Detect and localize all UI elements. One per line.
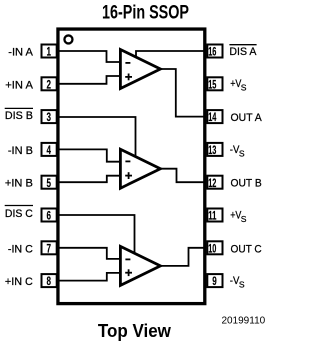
pin 4 label -IN B	[8, 145, 33, 157]
wire pin1 to op-amp A inverting input	[59, 51, 120, 62]
pin 8 number	[46, 274, 51, 288]
pin 3 number	[46, 110, 51, 124]
svg-text:14: 14	[208, 110, 216, 124]
svg-text:OUT B: OUT B	[231, 178, 262, 190]
title 16-Pin SSOP	[102, 2, 189, 23]
svg-text:S: S	[241, 214, 247, 224]
caption Top View	[98, 320, 172, 341]
svg-text:1: 1	[46, 45, 51, 59]
pin 12 box	[207, 176, 222, 189]
pin 12 number	[208, 176, 216, 190]
pin 16 box	[207, 45, 222, 58]
wire pin16 DIS A to op-amp A top edge	[136, 51, 205, 58]
svg-text:11: 11	[208, 209, 216, 223]
svg-text:2: 2	[46, 77, 51, 91]
wire pin7 to op-amp C inverting input	[59, 248, 120, 259]
pin 15 box	[207, 77, 222, 90]
svg-text:OUT C: OUT C	[231, 243, 262, 255]
pin 8 box	[42, 274, 57, 287]
pin 14 box	[207, 110, 222, 123]
pin 9 box	[207, 274, 222, 287]
svg-text:10: 10	[208, 241, 216, 255]
pin 6 label DIS C	[5, 208, 33, 220]
pin 3 box	[42, 110, 57, 123]
svg-text:Top View: Top View	[98, 320, 172, 341]
pin 2 label +IN A	[5, 79, 33, 91]
pin 11 label +VS	[230, 209, 247, 223]
pin 5 box	[42, 176, 57, 189]
wire pin6 DIS C to op-amp C top edge	[59, 215, 135, 254]
pin 6 number	[46, 209, 51, 223]
pin 1 number	[46, 45, 51, 59]
svg-text:3: 3	[46, 110, 51, 124]
pin 5 label +IN B	[5, 178, 33, 190]
svg-text:20199110: 20199110	[221, 316, 265, 327]
svg-text:13: 13	[208, 143, 216, 157]
wire pin3 DIS B to op-amp B top edge	[59, 117, 136, 158]
pin 12 label OUT B	[231, 178, 262, 190]
svg-text:16-Pin SSOP: 16-Pin SSOP	[102, 2, 189, 23]
wire pin5 to op-amp B non-inverting input	[59, 176, 120, 183]
pin 11 box	[207, 209, 222, 222]
pin 8 label +IN C	[5, 276, 33, 288]
pin 13 label -VS	[230, 144, 245, 159]
pin 15 number	[208, 77, 216, 91]
op-amp C plus sign	[125, 269, 132, 276]
pin 13 box	[207, 143, 222, 156]
svg-text:DIS B: DIS B	[5, 110, 33, 122]
pin 13 number	[208, 143, 216, 157]
op-amp B plus sign	[125, 172, 132, 179]
pin 7 box	[42, 241, 57, 254]
svg-text:4: 4	[46, 143, 51, 157]
svg-text:12: 12	[208, 176, 216, 190]
pin 3 label DIS B	[5, 110, 33, 122]
pin 10 label OUT C	[231, 243, 262, 255]
wire pin8 to op-amp C non-inverting input	[59, 273, 120, 281]
pin 2 number	[46, 77, 51, 91]
svg-text:16: 16	[208, 45, 216, 59]
svg-text:8: 8	[46, 274, 51, 288]
pin 16 label overline	[229, 44, 256, 46]
pin 5 number	[46, 176, 51, 190]
svg-text:15: 15	[208, 77, 216, 91]
svg-text:-IN B: -IN B	[8, 145, 33, 157]
svg-text:-IN C: -IN C	[8, 243, 33, 255]
wire op-amp C output to pin10	[158, 248, 205, 266]
wire op-amp A output to pin14	[159, 69, 205, 117]
svg-text:DIS A: DIS A	[229, 46, 257, 58]
pin 3 label overline	[5, 107, 33, 109]
pin 4 box	[42, 143, 57, 156]
svg-text:9: 9	[212, 274, 217, 288]
pin 11 number	[208, 209, 216, 223]
svg-text:S: S	[239, 148, 245, 158]
op-amp B minus sign	[125, 160, 130, 162]
pin 9 label -VS	[230, 275, 245, 290]
svg-text:-IN A: -IN A	[8, 47, 33, 59]
pin 15 label +VS	[230, 78, 247, 92]
svg-text:6: 6	[46, 209, 51, 223]
pin 14 label OUT A	[231, 112, 263, 124]
svg-text:+IN B: +IN B	[5, 178, 33, 190]
pin 2 box	[42, 77, 57, 90]
svg-text:5: 5	[46, 176, 51, 190]
figure number 20199110	[221, 316, 265, 327]
pin 7 number	[46, 241, 51, 255]
svg-text:S: S	[239, 280, 245, 290]
pin 1 label -IN A	[8, 47, 33, 59]
wire pin2 to op-amp A non-inverting input	[59, 76, 120, 84]
pin 6 label overline	[5, 205, 33, 207]
pin 16 label DIS A	[229, 46, 257, 58]
svg-text:DIS C: DIS C	[5, 208, 33, 220]
svg-text:+IN C: +IN C	[5, 276, 33, 288]
pin 4 number	[46, 143, 51, 157]
IC body outline	[58, 29, 205, 304]
op-amp C	[120, 246, 160, 285]
pin 1 box	[42, 45, 57, 58]
op-amp A minus sign	[125, 62, 130, 64]
pin 14 number	[208, 110, 216, 124]
op-amp C minus sign	[125, 258, 130, 260]
pin 10 box	[207, 241, 222, 254]
pin 16 number	[208, 45, 216, 59]
wire op-amp B output to pin12	[159, 169, 205, 183]
svg-text:7: 7	[46, 241, 51, 255]
svg-text:OUT A: OUT A	[231, 112, 263, 124]
op-amp B	[120, 149, 160, 188]
pin 9 number	[212, 274, 217, 288]
wire pin4 to op-amp B inverting input	[59, 149, 120, 161]
op-amp A	[120, 50, 160, 89]
svg-text:S: S	[241, 83, 247, 93]
op-amp A plus sign	[125, 74, 132, 81]
pin 10 number	[208, 241, 216, 255]
pin 7 label -IN C	[8, 243, 33, 255]
pin 1 indicator circle	[64, 35, 72, 43]
pin 6 box	[42, 209, 57, 222]
svg-text:+IN A: +IN A	[5, 79, 33, 91]
